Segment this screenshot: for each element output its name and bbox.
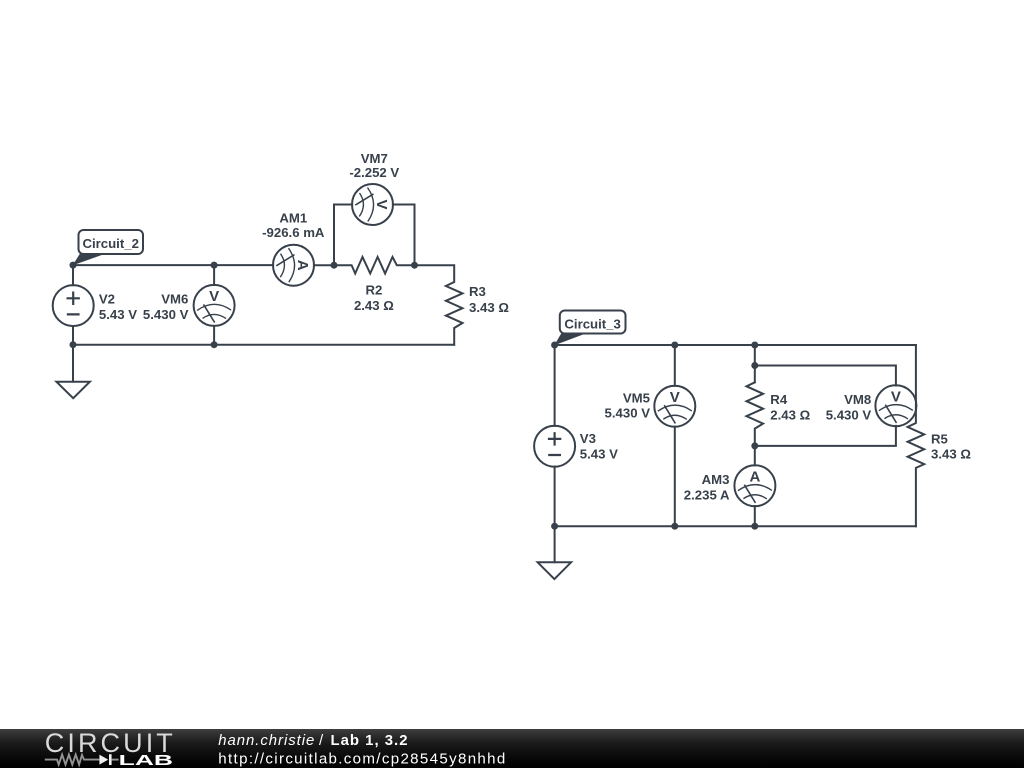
svg-text:5.43 V: 5.43 V: [99, 307, 137, 322]
wire VM8 top branch: [755, 366, 896, 386]
svg-text:VM8: VM8: [844, 392, 871, 407]
svg-text:VM5: VM5: [623, 390, 650, 405]
node label Circuit_3: [554, 311, 625, 346]
wire VM6 top stub: [213, 265, 215, 285]
wire bottom rail: [555, 525, 916, 527]
svg-text:A: A: [294, 260, 311, 271]
wire VM6 bottom stub: [213, 326, 215, 345]
node junction top-left: [70, 262, 77, 269]
ammeter AM3: [734, 465, 775, 506]
node junction R4 bottom: [751, 442, 758, 449]
node junction VM6 bottom: [211, 341, 218, 348]
voltmeter VM5: [654, 386, 695, 427]
node junction AM3 bottom: [751, 523, 758, 530]
node junction bottom-left V3: [551, 523, 558, 530]
wire VM7 left branch: [334, 205, 352, 266]
svg-text:V2: V2: [99, 291, 115, 306]
svg-text:V: V: [670, 389, 680, 406]
resistor R2: [334, 257, 415, 274]
svg-text:V: V: [209, 288, 219, 305]
ground: [538, 562, 572, 579]
svg-text:V3: V3: [580, 431, 596, 446]
logo resistor squiggle: [45, 755, 100, 765]
node junction VM5 bottom: [671, 523, 678, 530]
wire V2 bottom stub: [72, 326, 74, 345]
wire VM5 bottom stub: [674, 427, 676, 527]
svg-text:3.43 Ω: 3.43 Ω: [469, 300, 509, 315]
svg-text:-2.252 V: -2.252 V: [349, 165, 399, 180]
svg-text:LAB: LAB: [119, 752, 174, 768]
svg-text:2.43 Ω: 2.43 Ω: [354, 298, 394, 313]
svg-text:R2: R2: [365, 283, 382, 298]
wire AM3 top stub: [754, 446, 756, 466]
svg-text:V: V: [373, 199, 390, 209]
svg-text:2.43 Ω: 2.43 Ω: [770, 407, 810, 422]
wire top rail left segment: [73, 264, 273, 266]
wire VM5 top stub: [674, 345, 676, 386]
svg-text:R4: R4: [770, 392, 788, 407]
wire AM3 bottom stub: [754, 506, 756, 526]
node junction R2 right: [411, 262, 418, 269]
node label Circuit_2: [73, 230, 143, 265]
svg-text:Lab 1, 3.2: Lab 1, 3.2: [331, 733, 408, 749]
wire bottom rail: [73, 344, 454, 346]
svg-text:5.430 V: 5.430 V: [826, 407, 872, 422]
voltmeter VM6: [194, 285, 235, 326]
voltage source V2: [53, 285, 94, 326]
svg-text:hann.christie: hann.christie: [218, 733, 314, 749]
svg-text:R5: R5: [931, 431, 948, 446]
resistor R5: [908, 345, 925, 526]
node junction R2 left: [331, 262, 338, 269]
resistor R3: [415, 265, 463, 345]
node junction VM6 top: [211, 262, 218, 269]
svg-text:Circuit_3: Circuit_3: [564, 317, 620, 332]
wire top rail: [555, 344, 916, 346]
svg-text:A: A: [749, 468, 760, 485]
resistor R4: [747, 382, 764, 446]
node junction bottom-left: [70, 341, 77, 348]
voltmeter VM7: [352, 184, 393, 225]
ground: [56, 382, 90, 399]
wire ground stub: [554, 526, 556, 562]
voltmeter VM8: [875, 385, 916, 426]
logo diode: [99, 754, 118, 765]
wire V2 top stub: [72, 265, 74, 285]
svg-text:R3: R3: [469, 284, 486, 299]
ammeter AM1: [273, 245, 314, 286]
wire VM8 bottom branch: [755, 426, 896, 446]
svg-text:V: V: [891, 388, 901, 405]
node junction top-left V3: [551, 342, 558, 349]
wire V3 bottom stub: [554, 467, 556, 527]
node junction R4 branch: [751, 362, 758, 369]
wire V3 top stub: [554, 345, 556, 426]
svg-text:-926.6 mA: -926.6 mA: [262, 225, 325, 240]
svg-text:2.235 A: 2.235 A: [684, 487, 730, 502]
svg-text:5.43 V: 5.43 V: [580, 447, 618, 462]
footer bar: [0, 729, 1024, 768]
wire R4 top stub: [754, 345, 756, 382]
wire VM7 right branch: [393, 205, 415, 266]
svg-text:Circuit_2: Circuit_2: [82, 236, 138, 251]
svg-text:AM1: AM1: [279, 211, 307, 226]
wire ground stub: [72, 345, 74, 382]
svg-text:AM3: AM3: [702, 472, 730, 487]
node junction VM5 top: [671, 342, 678, 349]
svg-text:VM6: VM6: [161, 291, 188, 306]
svg-text:5.430 V: 5.430 V: [605, 406, 651, 421]
svg-text:5.430 V: 5.430 V: [143, 307, 189, 322]
wire AM1 to R2: [314, 264, 334, 266]
svg-text:VM7: VM7: [361, 151, 388, 166]
node junction R4 top: [751, 342, 758, 349]
svg-text:3.43 Ω: 3.43 Ω: [931, 446, 971, 461]
voltage source V3: [534, 426, 575, 467]
svg-text:http://circuitlab.com/cp28545y: http://circuitlab.com/cp28545y8nhhd: [218, 750, 505, 767]
